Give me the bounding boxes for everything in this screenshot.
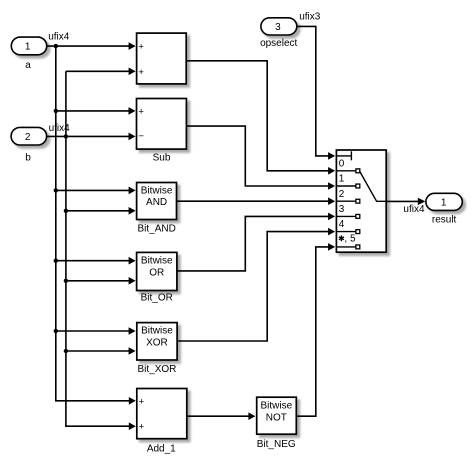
wire Bit_AND out to switch port2 (177, 200, 331, 202)
node junction a-OR (54, 259, 58, 263)
node junction b-OR (64, 279, 68, 283)
svg-text:, 5: , 5 (344, 233, 356, 244)
adder Add (137, 33, 187, 84)
svg-text:1: 1 (339, 174, 345, 185)
wire a-bus end to Add_1 in1 (56, 399, 132, 402)
port1 contact (356, 184, 360, 188)
port4 contact (356, 230, 360, 234)
wire b tap to Bit_AND in2 (66, 210, 131, 212)
port2 line (336, 200, 356, 202)
wire switch out to result (386, 200, 420, 202)
svg-text:−: − (138, 131, 144, 142)
wire b-bus elbow to Add in2 (66, 70, 131, 72)
svg-text:+: + (139, 396, 145, 407)
svg-text:3: 3 (275, 22, 281, 33)
bitwise XOR Bit_XOR (137, 323, 177, 375)
node junction b-AND (64, 209, 68, 213)
node junction a-Sub (54, 109, 58, 113)
svg-text:2: 2 (25, 132, 31, 143)
node junction a-XOR (54, 329, 58, 333)
svg-text:0: 0 (339, 158, 345, 169)
subtractor Sub (137, 99, 187, 164)
wire Add out to switch port0 (186, 61, 331, 171)
svg-text:Bitwise: Bitwise (141, 255, 173, 266)
inport b (11, 123, 70, 164)
wire a tap to Sub plus (56, 110, 131, 112)
svg-text:4: 4 (339, 219, 345, 230)
control line (336, 155, 351, 157)
svg-text:+: + (138, 106, 144, 117)
port star5 contact (356, 245, 360, 249)
wire port1 to Add in1 (47, 45, 132, 47)
multiport switch (336, 150, 386, 252)
wire Sub out to switch port1 (186, 126, 331, 186)
wire b tap to Bit_XOR in2 (66, 350, 131, 352)
port3 line (336, 215, 356, 217)
port star5 line (336, 246, 356, 248)
svg-text:Add_1: Add_1 (147, 443, 176, 454)
svg-text:Bitwise: Bitwise (260, 401, 292, 412)
svg-text:opselect: opselect (260, 38, 297, 49)
svg-text:ufix4: ufix4 (403, 204, 425, 215)
svg-text:ufix3: ufix3 (299, 11, 321, 22)
outport result (403, 193, 462, 225)
wire Bit_NEG out to switch port star5 (296, 247, 331, 416)
svg-text:3: 3 (339, 204, 345, 215)
node junction a at port1 (54, 44, 58, 48)
svg-text:1: 1 (441, 197, 447, 208)
adder Add_1 (137, 389, 187, 455)
port4 line (336, 231, 356, 233)
bitwise AND Bit_AND (137, 183, 177, 235)
wire Add_1 out to Bit_NEG (187, 415, 251, 417)
svg-text:XOR: XOR (146, 338, 168, 349)
wire a tap to Bit_XOR in1 (56, 330, 132, 332)
port3 contact (356, 214, 360, 218)
port1 line (336, 185, 356, 187)
svg-text:OR: OR (149, 268, 164, 279)
svg-text:Bitwise: Bitwise (141, 325, 173, 336)
svg-text:result: result (432, 214, 457, 225)
wire a tap to Bit_OR in1 (56, 260, 132, 262)
svg-text:a: a (25, 60, 31, 71)
wire b-bus end to Add_1 in2 (66, 425, 131, 428)
svg-text:b: b (25, 153, 31, 164)
svg-text:2: 2 (339, 189, 345, 200)
wire b-bus vertical (65, 71, 67, 426)
switch selector diagonal (360, 172, 386, 202)
inport a (11, 31, 69, 71)
svg-text:1: 1 (25, 41, 31, 52)
node junction b-XOR (64, 349, 68, 353)
svg-text:AND: AND (146, 197, 167, 208)
svg-text:+: + (139, 422, 145, 433)
svg-text:ufix4: ufix4 (48, 31, 70, 42)
svg-text:Bit_NEG: Bit_NEG (257, 439, 296, 450)
svg-text:NOT: NOT (266, 412, 287, 423)
wire b tap to Bit_OR in2 (66, 280, 131, 282)
wire opselect to switch control (297, 26, 331, 156)
wire port2 to Sub minus (47, 135, 132, 137)
port0 line (336, 170, 356, 172)
wire Bit_OR out to switch port3 (177, 216, 331, 271)
node junction b at port2 (64, 134, 68, 138)
control tick (350, 151, 352, 160)
svg-text:ufix4: ufix4 (49, 123, 71, 134)
node junction a-AND (54, 188, 58, 192)
svg-text:Bitwise: Bitwise (141, 186, 173, 197)
label star 5 (339, 235, 344, 241)
svg-text:Bit_XOR: Bit_XOR (137, 364, 176, 375)
svg-text:+: + (138, 41, 144, 52)
port0 contact (356, 169, 360, 173)
bitwise NOT Bit_NEG (257, 397, 297, 450)
bitwise OR Bit_OR (137, 252, 177, 303)
svg-text:+: + (138, 67, 144, 78)
port2 contact (356, 199, 360, 203)
svg-text:Bit_OR: Bit_OR (141, 292, 173, 303)
svg-text:Sub: Sub (153, 153, 171, 164)
wire a tap to Bit_AND in1 (56, 189, 132, 191)
wire a-bus vertical (55, 46, 57, 401)
wire Bit_XOR out to switch port4 (177, 232, 331, 341)
inport opselect (260, 11, 321, 48)
svg-text:Bit_AND: Bit_AND (138, 224, 176, 235)
